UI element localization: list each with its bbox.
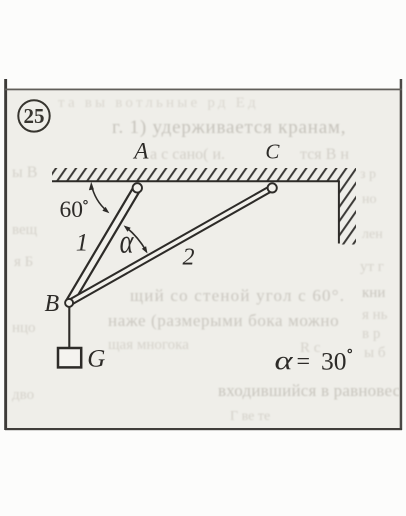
svg-text:60: 60 xyxy=(60,197,84,223)
svg-text:входившийся в равновесн: входившийся в равновесн xyxy=(218,381,406,400)
svg-text:щая многока: щая многока xyxy=(108,337,189,353)
svg-text:кни: кни xyxy=(362,285,385,301)
svg-text:нцо: нцо xyxy=(12,320,36,336)
svg-text:но: но xyxy=(362,192,377,207)
svg-text:я Б: я Б xyxy=(14,254,33,270)
svg-text:наже (размерыми бока можно: наже (размерыми бока можно xyxy=(108,311,339,330)
svg-text:G: G xyxy=(87,345,105,372)
svg-text:тся В н: тся В н xyxy=(300,146,349,163)
svg-text:25: 25 xyxy=(24,104,45,128)
svg-text:в р: в р xyxy=(362,326,380,342)
svg-text:=: = xyxy=(297,349,311,375)
svg-text:1: 1 xyxy=(76,229,89,256)
svg-text:я нь: я нь xyxy=(362,307,388,323)
svg-text:щий со стеной угол с 60°.: щий со стеной угол с 60°. xyxy=(130,286,345,305)
svg-text:2: 2 xyxy=(183,244,195,270)
svg-text:ут г: ут г xyxy=(360,259,384,275)
svg-text:дво: дво xyxy=(12,387,34,403)
svg-text:з р: з р xyxy=(360,167,376,182)
svg-text:C: C xyxy=(265,139,280,163)
svg-text:30: 30 xyxy=(321,347,347,376)
svg-text:α: α xyxy=(275,346,294,375)
svg-text:A: A xyxy=(132,139,149,165)
svg-text:та вы вотльные рд Ед: та вы вотльные рд Ед xyxy=(58,95,259,111)
svg-text:ы б: ы б xyxy=(364,345,386,361)
svg-text:B: B xyxy=(44,291,59,317)
svg-text:α: α xyxy=(120,222,135,260)
svg-text:лен: лен xyxy=(362,227,383,242)
svg-text:г. 1) удерживается кранам,: г. 1) удерживается кранам, xyxy=(112,117,346,138)
svg-text:а с сано( и.: а с сано( и. xyxy=(150,146,225,163)
svg-text:Г ве те: Г ве те xyxy=(230,409,270,424)
svg-text:вещ: вещ xyxy=(12,222,38,238)
svg-text:ы В: ы В xyxy=(12,164,37,181)
